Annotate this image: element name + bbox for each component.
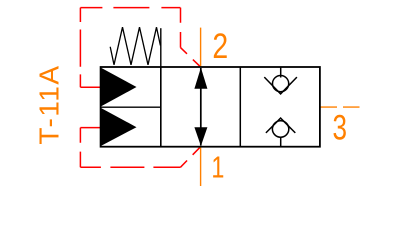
svg-text:T-11A: T-11A <box>34 66 65 145</box>
svg-text:3: 3 <box>333 107 348 147</box>
svg-text:2: 2 <box>212 27 228 66</box>
svg-text:1: 1 <box>211 151 224 185</box>
